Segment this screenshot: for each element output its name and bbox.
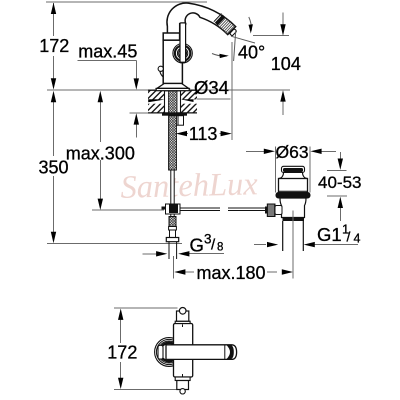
svg-text:350: 350 [39, 158, 69, 178]
svg-text:40-53: 40-53 [318, 173, 361, 192]
svg-text:113: 113 [189, 124, 218, 144]
svg-text:max.300: max.300 [66, 144, 135, 164]
svg-text:/: / [347, 229, 351, 245]
svg-text:40°: 40° [238, 42, 265, 62]
svg-text:max.45: max.45 [78, 42, 137, 62]
svg-text:Ø63: Ø63 [276, 142, 309, 162]
svg-text:172: 172 [39, 36, 69, 56]
svg-text:G: G [190, 234, 204, 255]
svg-text:Ø34: Ø34 [194, 77, 229, 98]
svg-text:G1: G1 [317, 224, 342, 245]
svg-text:4: 4 [354, 232, 361, 246]
svg-text:104: 104 [271, 54, 301, 74]
svg-text:SantehLux: SantehLux [120, 166, 259, 206]
svg-text:max.180: max.180 [197, 263, 266, 283]
svg-text:8: 8 [217, 241, 223, 253]
svg-text:172: 172 [107, 343, 137, 363]
